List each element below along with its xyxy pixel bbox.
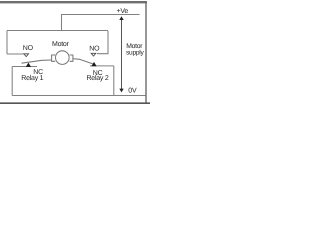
- NC1 contact arrow (filled): [26, 63, 31, 67]
- wire NC2 stub: [90, 65, 114, 67]
- motor right brush tab: [70, 55, 73, 61]
- wire 0V rail: [12, 95, 145, 97]
- svg-text:NO: NO: [89, 45, 100, 52]
- frame bottom border: [0, 102, 150, 104]
- wire NO1 stub: [7, 53, 29, 55]
- wire drop from +Ve rail: [61, 15, 63, 32]
- svg-text:0V: 0V: [128, 88, 137, 95]
- svg-text:Relay 1: Relay 1: [21, 74, 43, 82]
- frame top border: [0, 1, 147, 3]
- motor supply dimension arrow stem: [121, 19, 123, 90]
- wire top horizontal: [7, 30, 108, 32]
- wire +Ve rail: [61, 14, 140, 16]
- svg-text:+Ve: +Ve: [117, 8, 129, 15]
- relay 2 switch arm: [73, 59, 95, 65]
- wire NC1 down to 0V: [11, 67, 13, 96]
- motor left brush tab: [52, 55, 56, 61]
- svg-text:Relay 2: Relay 2: [87, 74, 109, 82]
- svg-text:Motor: Motor: [52, 41, 70, 48]
- svg-text:supply: supply: [126, 50, 145, 57]
- wire left vertical to NO1: [6, 31, 8, 55]
- motor M1 circle: [56, 51, 70, 65]
- up arrowhead to +Ve: [119, 16, 123, 20]
- NO1 contact arrow: [24, 54, 29, 57]
- down arrowhead to 0V: [119, 89, 123, 93]
- svg-text:NO: NO: [23, 45, 34, 52]
- wire NC2 down to 0V: [113, 66, 115, 96]
- frame right border: [145, 2, 147, 104]
- NO2 contact arrow: [91, 53, 96, 56]
- wire NO2 bracket: [97, 31, 108, 54]
- NC2 contact arrow (filled): [91, 62, 96, 66]
- wire NC1 stub: [12, 66, 37, 68]
- relay 1 switch arm: [22, 60, 52, 63]
